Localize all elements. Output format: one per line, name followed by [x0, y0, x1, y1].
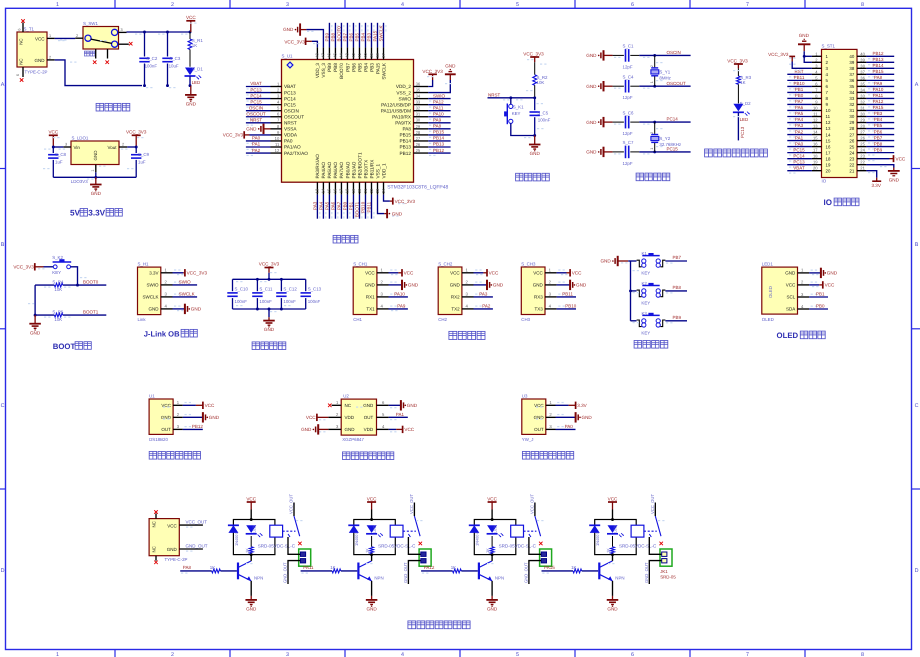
IO wire net PA0 — [787, 147, 812, 150]
IO net label PB13 — [872, 57, 884, 62]
svg-text:S_R2: S_R2 — [537, 75, 549, 80]
svg-text:OSCOUT: OSCOUT — [246, 111, 266, 116]
wire net PA7 (bottom) — [341, 195, 344, 219]
svg-text:LED: LED — [613, 525, 618, 533]
svg-text:RX2: RX2 — [451, 295, 460, 300]
IO pin number 34 — [849, 90, 854, 95]
capacitor S_C13 — [301, 279, 311, 309]
svg-text:1K: 1K — [571, 565, 576, 570]
pin 6 OSCOUT stub — [271, 112, 282, 117]
svg-text:24: 24 — [860, 148, 865, 153]
net label PB5 (rotated) — [355, 32, 360, 41]
svg-text:100nF: 100nF — [235, 299, 248, 304]
ground GND (LDO) — [90, 177, 102, 196]
LED S_D1 value label — [192, 80, 201, 85]
svg-text:VCC: VCC — [365, 270, 375, 275]
key K3 — [637, 313, 666, 327]
IO pin 37 stub — [857, 69, 866, 74]
svg-text:S_C9: S_C9 — [138, 152, 150, 157]
connector T2 TYPE-C-2P body — [149, 519, 179, 556]
IO net label PB14 — [872, 63, 884, 68]
terminal block pin2 (PA8) — [300, 559, 305, 563]
IO pin number 23 — [849, 156, 854, 161]
svg-text:PA4: PA4 — [795, 117, 804, 122]
terminal block pin2 (PA12) — [541, 559, 546, 563]
junction S_C12 bottom — [280, 308, 283, 311]
wire collector (PA15) — [612, 555, 614, 561]
svg-text:SWIO: SWIO — [179, 280, 191, 285]
IO wire net PB1 — [787, 92, 812, 95]
svg-text:GND: GND — [264, 327, 275, 332]
no-ERC marker on S_T1 top pin — [21, 19, 25, 23]
wire net BOOT1 (bottom) — [359, 195, 362, 219]
svg-text:8MHz: 8MHz — [659, 76, 670, 81]
svg-text:Link: Link — [138, 317, 147, 322]
LED S_D2 designator — [740, 101, 752, 106]
svg-text:VCC_3V3: VCC_3V3 — [727, 58, 748, 63]
svg-text:OSCIN: OSCIN — [667, 50, 681, 55]
svg-text:VCC: VCC — [404, 427, 414, 432]
capacitor S_C8 — [48, 147, 58, 177]
power port VCC_3V3 (IO pin 3) — [768, 52, 795, 61]
display LED1 designator — [762, 261, 774, 266]
terminal block pin1 (PA11) — [421, 552, 426, 556]
wire NO contact to terminal (PA15) — [649, 537, 661, 554]
svg-text:32: 32 — [860, 99, 865, 104]
svg-text:PB14: PB14 — [433, 136, 445, 141]
pin 15 PA5/AO stub (bottom) — [327, 182, 332, 194]
pin 3 stub (U3) — [546, 424, 564, 429]
wire relay loop (PA11) — [354, 520, 396, 555]
terminal block pin1 (PA8) — [300, 552, 305, 556]
pin 4 stub (OLED) — [798, 304, 818, 309]
pin name PB2/BOOT1 — [357, 152, 362, 178]
crystal S_Y1 — [651, 55, 659, 86]
diode 1N4007 (PA15) — [589, 525, 600, 533]
svg-text:PB3: PB3 — [369, 63, 374, 72]
net label PA8 — [183, 565, 192, 570]
pin 22 PB11/RX stub (bottom) — [369, 182, 374, 194]
power port VCC_3V3 (boot) — [13, 263, 43, 270]
svg-text:GND: GND — [35, 58, 46, 63]
svg-text:35: 35 — [849, 84, 854, 89]
svg-text:S_R4: S_R4 — [52, 279, 64, 284]
net label NRST — [250, 118, 263, 123]
connector S_ST1 value IO — [822, 179, 827, 184]
power port VCC_3V3 (reset) — [523, 51, 544, 62]
ground GND (H1 pin4) — [173, 304, 202, 314]
svg-text:SCL: SCL — [787, 295, 796, 300]
svg-text:13: 13 — [813, 124, 818, 129]
svg-text:PA11: PA11 — [433, 105, 444, 110]
relay part text (PA15) — [619, 543, 657, 548]
IO pin number 24 — [849, 150, 854, 155]
svg-text:RX1: RX1 — [366, 295, 375, 300]
svg-text:K1: K1 — [642, 251, 648, 256]
IO wire net PA4 — [787, 123, 812, 126]
connector S_CH3 value CH3 — [521, 317, 530, 322]
wire net NRST — [246, 123, 271, 126]
svg-text:12pF: 12pF — [623, 161, 633, 166]
pin 2 stub (H1) — [161, 280, 181, 285]
svg-text:VCC: VCC — [896, 156, 906, 161]
IO net label PA12 — [873, 99, 884, 104]
IO pin number 35 — [849, 84, 854, 89]
svg-text:1N4007: 1N4007 — [234, 532, 239, 546]
key K1 value KEY — [641, 271, 650, 276]
ground GND (relay PA15) — [607, 596, 619, 612]
key S_K1 contacts — [509, 104, 513, 123]
svg-text:Vout: Vout — [107, 145, 117, 150]
pin 23 VSS_1 stub (bottom) — [375, 182, 380, 194]
pin name OUT (U3) — [534, 427, 544, 432]
module U2 value XGZP6847 — [342, 437, 364, 442]
IO pin 24 stub — [857, 148, 866, 153]
svg-text:40: 40 — [363, 52, 368, 57]
svg-text:NC: NC — [151, 546, 156, 552]
net label PB10 (rotated) — [361, 201, 366, 213]
svg-text:1uF: 1uF — [55, 160, 63, 165]
pin T2 bottom stub — [155, 556, 157, 561]
svg-text:PA15: PA15 — [373, 30, 378, 41]
pin name PA15 — [375, 63, 380, 75]
svg-text:OUT: OUT — [161, 427, 171, 432]
svg-text:OSCOUT: OSCOUT — [284, 114, 304, 119]
svg-text:12: 12 — [275, 148, 280, 153]
wire emitter to gnd (PA12) — [491, 581, 493, 596]
IO pin 2 stub — [812, 57, 822, 62]
svg-text:20: 20 — [813, 166, 818, 171]
wire NRST — [488, 98, 535, 101]
IO net label PB11 — [794, 75, 805, 80]
key S_K2 value KEY — [52, 270, 61, 275]
pin 2 stub (S_CH2) — [462, 280, 482, 285]
IO pin 11 stub — [812, 112, 822, 117]
IO pin 1 stub — [812, 51, 822, 56]
wire PB11 (S_CH3) — [557, 296, 576, 298]
net label PA3 (rotated) — [313, 201, 318, 210]
pin 1 stub (S_CH3) — [545, 268, 565, 273]
module U1 value DS18B20 — [149, 437, 168, 442]
pin 46 PB9 stub (top) — [327, 47, 332, 59]
net label NRST — [488, 93, 501, 98]
pin 3 stub (S_CH1) — [377, 292, 397, 297]
pin 48 VDD_3 stub (top) — [315, 47, 320, 59]
resistor 1K base (PA15) — [573, 569, 582, 573]
IO pin number 19 — [826, 162, 831, 167]
resistor S_R1 labels — [192, 38, 204, 48]
svg-text:SWCLK: SWCLK — [379, 25, 384, 41]
caption serial circuit — [449, 331, 485, 339]
svg-text:GND: GND — [93, 150, 98, 161]
svg-text:GND: GND — [408, 283, 419, 288]
svg-text:S_C12: S_C12 — [283, 287, 297, 292]
svg-text:PC14: PC14 — [667, 117, 679, 122]
svg-text:S_C5: S_C5 — [537, 110, 549, 115]
svg-text:PB1: PB1 — [795, 87, 804, 92]
svg-text:VCC_3V3: VCC_3V3 — [126, 129, 147, 134]
svg-text:GND: GND — [407, 403, 418, 408]
svg-text:PA1: PA1 — [795, 135, 804, 140]
power port VCC (IO pin 23) — [866, 155, 905, 162]
module U3 value YW_J — [522, 437, 534, 442]
IO pin 23 stub — [857, 154, 866, 159]
junction at GND stem — [189, 84, 192, 87]
wire relay loop (PA12) — [474, 520, 516, 555]
IO pin number 37 — [849, 72, 854, 77]
LED relay (PA11) — [366, 525, 383, 537]
wire collector (PA8) — [250, 555, 252, 561]
svg-text:24: 24 — [381, 188, 386, 193]
pin name PA0 — [284, 139, 293, 144]
svg-text:VCC_3V3: VCC_3V3 — [395, 199, 416, 204]
pin name PC13 — [284, 90, 296, 95]
svg-text:VCC: VCC — [450, 270, 460, 275]
net label PA2 (S_CH2) — [482, 304, 491, 309]
svg-text:SWIO: SWIO — [433, 93, 445, 98]
wire emitter to gnd (PA8) — [250, 581, 252, 596]
svg-text:PB15: PB15 — [400, 133, 412, 138]
relay part text (PA12) — [499, 543, 537, 548]
svg-text:PC14: PC14 — [284, 96, 296, 101]
svg-text:SRD-05VDC-SL-C: SRD-05VDC-SL-C — [619, 543, 657, 548]
net label PA15 — [544, 565, 555, 570]
junction keys K2 — [629, 289, 632, 292]
svg-text:34: 34 — [849, 90, 854, 95]
pin name PA7/AO — [339, 162, 344, 179]
wire net PA10 — [428, 117, 450, 120]
svg-text:LDO3V3: LDO3V3 — [71, 179, 88, 184]
svg-text:PB1/AO: PB1/AO — [351, 161, 356, 178]
svg-text:5: 5 — [516, 652, 519, 657]
wire input PA12 — [421, 571, 453, 574]
svg-text:PA3: PA3 — [479, 292, 488, 297]
wire relay common VCC_OUT (PA15) — [654, 503, 656, 517]
wire filter top rail — [233, 278, 306, 280]
svg-text:PA7: PA7 — [337, 201, 342, 210]
IO pin 22 stub — [857, 160, 866, 165]
svg-text:12: 12 — [813, 118, 818, 123]
connector S_T1 value TYPE-C-2P — [25, 70, 48, 75]
wire net PB13 — [428, 147, 450, 150]
svg-text:S_U1: S_U1 — [282, 54, 294, 59]
resistor S_R5 — [54, 313, 62, 317]
wire net PB15 — [428, 135, 450, 138]
junction LDO gnd — [94, 176, 97, 179]
pin 1 stub (U3) — [546, 400, 564, 405]
wire net PC14 — [246, 99, 271, 102]
IC S_U1 part number — [387, 184, 448, 190]
power port VCC (S_CH1) — [389, 269, 414, 276]
IO net label PA5 — [795, 111, 804, 116]
wire net PB7 (top) — [347, 23, 350, 48]
svg-text:14: 14 — [826, 132, 831, 137]
svg-text:NPN: NPN — [254, 576, 263, 581]
svg-text:PA15: PA15 — [873, 105, 884, 110]
wire relay common VCC_OUT (PA11) — [413, 503, 415, 517]
svg-text:CH2: CH2 — [438, 317, 447, 322]
pin name GND (U1) — [161, 415, 172, 420]
power port VCC (S_CH3) — [557, 269, 582, 276]
switch pin 4 stub with no-connect X — [119, 42, 133, 46]
wire net PA9 — [428, 123, 450, 126]
IO pin 31 stub — [857, 105, 866, 110]
IO wire net PA9 — [866, 86, 894, 89]
pin name TX3 (S_CH3) — [535, 307, 544, 312]
net label PA11 — [303, 565, 314, 570]
pin name BOOT0 — [339, 63, 344, 79]
svg-text:NC: NC — [151, 521, 156, 527]
svg-text:VCC: VCC — [161, 403, 171, 408]
pin name RX1 (S_CH1) — [366, 295, 375, 300]
svg-text:PA11: PA11 — [873, 93, 884, 98]
power port GND (VSSA pin 8) — [246, 124, 270, 134]
pin name OUT right (U2) — [364, 415, 374, 420]
switch left contact — [85, 35, 91, 41]
power port VCC (relay PA12) — [487, 496, 497, 519]
svg-text:GND: GND — [450, 283, 461, 288]
no-connect X (U2 pin1) — [328, 404, 332, 408]
svg-text:TYPE-C-2P: TYPE-C-2P — [165, 557, 188, 562]
svg-text:GND: GND — [445, 64, 456, 69]
svg-text:D: D — [1, 568, 5, 574]
svg-text:GND: GND — [582, 415, 593, 420]
svg-text:PC13: PC13 — [740, 126, 745, 138]
net label PB0 (rotated) — [343, 201, 348, 210]
caption level module — [522, 452, 573, 460]
pin name GND (S_CH2) — [450, 283, 461, 288]
pin 8 VSSA stub — [271, 124, 282, 129]
LED relay (PA15) — [607, 525, 624, 537]
svg-text:GND: GND — [186, 102, 197, 107]
pin name PC15 — [284, 102, 296, 107]
svg-text:PB8: PB8 — [333, 63, 338, 72]
svg-text:VCC_3V3: VCC_3V3 — [523, 51, 544, 56]
svg-text:GND: GND — [534, 415, 545, 420]
net label PB8 (rotated) — [331, 32, 336, 41]
pin 27 PB14 stub — [414, 136, 429, 141]
svg-text:S_C6: S_C6 — [623, 110, 635, 115]
svg-text:PB3: PB3 — [367, 32, 372, 41]
resistor S_R5 labels — [52, 309, 64, 322]
wire filter GND stem — [268, 309, 270, 317]
IO wire net PA5 — [787, 117, 812, 120]
resistor S_R2 — [533, 62, 537, 98]
wire net PB5 (top) — [359, 23, 362, 48]
transistor NPN (PA11) — [358, 561, 371, 581]
svg-text:VDD: VDD — [345, 415, 355, 420]
resistor 1K base label (PA15) — [571, 565, 576, 570]
pin name GND (S_CH3) — [533, 283, 544, 288]
svg-text:STM32F103C8T6_LQFP48: STM32F103C8T6_LQFP48 — [387, 184, 448, 190]
pin 1 stub (S_CH2) — [462, 268, 482, 273]
resistor S_R4 — [54, 283, 62, 287]
svg-text:OSCOUT: OSCOUT — [667, 81, 687, 86]
IO pin number 11 — [826, 114, 831, 119]
module U3 designator — [522, 393, 528, 398]
IO wire net PA11 — [866, 98, 894, 101]
svg-text:B: B — [1, 242, 5, 248]
svg-text:33: 33 — [860, 93, 865, 98]
pin name PB9 — [327, 63, 332, 72]
net label PA10 — [433, 111, 444, 116]
IO pin number 14 — [826, 132, 831, 137]
svg-text:PB10/TX: PB10/TX — [363, 159, 368, 179]
IO pin number 13 — [826, 126, 831, 131]
connector S_T1 TYPE-C-2P body — [17, 32, 47, 67]
connector S_CH3 body — [521, 267, 545, 315]
power port VCC (U1) — [183, 402, 215, 409]
pin 20 PB2/BOOT1 stub (bottom) — [357, 182, 362, 194]
wire net PA1 — [246, 147, 271, 150]
resistor 1K vert (PA12) — [490, 536, 494, 555]
net label PA2 — [252, 148, 261, 153]
svg-text:1: 1 — [650, 81, 654, 83]
svg-text:VCC: VCC — [186, 15, 196, 20]
ground GND (U2 pin6) — [389, 400, 418, 410]
wire OUT PA1 (U2) — [389, 416, 408, 418]
svg-text:PB11: PB11 — [562, 292, 573, 297]
svg-text:31: 31 — [416, 112, 421, 117]
pin 34 SWIO stub — [414, 94, 429, 99]
svg-text:2: 2 — [76, 34, 78, 38]
svg-text:36: 36 — [416, 81, 421, 86]
IO pin 12 stub — [812, 118, 822, 123]
regulator S_LDO1 body — [71, 141, 119, 165]
pin 18 PB0/AO stub (bottom) — [345, 182, 350, 194]
junction loop bottom (PA15) — [611, 553, 614, 556]
wire net OSCIN — [246, 111, 271, 114]
svg-text:VSS_1: VSS_1 — [375, 164, 380, 179]
wire net PA0 — [246, 141, 271, 144]
svg-text:27: 27 — [860, 130, 865, 135]
svg-text:1K: 1K — [192, 43, 197, 48]
caption key circuit — [634, 341, 668, 349]
svg-text:NPN: NPN — [495, 576, 504, 581]
pin S_T1.GND stub — [47, 55, 55, 60]
junction at C8 top — [52, 146, 55, 149]
resistor S_R2 labels — [537, 75, 549, 85]
svg-text:35: 35 — [860, 81, 865, 86]
svg-text:S_CH3: S_CH3 — [521, 261, 536, 266]
resistor 1K base (PA8) — [212, 569, 221, 573]
svg-text:KEY: KEY — [512, 111, 521, 116]
resistor 1K base (PA11) — [332, 569, 341, 573]
svg-text:LED: LED — [192, 80, 201, 85]
pin name PA12/USB/DP — [381, 102, 411, 107]
wire net SWCLK (top) — [384, 23, 387, 48]
svg-text:PA3: PA3 — [795, 123, 804, 128]
svg-text:2: 2 — [650, 65, 654, 67]
svg-text:VCC_3V3: VCC_3V3 — [259, 262, 280, 267]
pin LDO Vout stub — [119, 142, 127, 147]
pin name SWCLK (H1) — [142, 295, 158, 300]
junction at C3 bottom — [166, 84, 169, 87]
svg-text:2: 2 — [49, 55, 51, 59]
transistor NPN label (PA15) — [615, 576, 624, 581]
svg-text:1K: 1K — [740, 80, 745, 85]
pin name VCC (S_CH1) — [365, 270, 375, 275]
wire net PB11 (bottom) — [371, 195, 374, 219]
net label PA8 — [433, 124, 442, 129]
svg-text:33: 33 — [416, 100, 421, 105]
svg-text:18: 18 — [345, 188, 350, 193]
svg-text:GND: GND — [191, 307, 202, 312]
svg-text:PB6: PB6 — [351, 63, 356, 72]
net label PA7 (rotated) — [337, 201, 342, 210]
terminal block body (PA15) — [660, 549, 672, 566]
wire VDDA — [250, 134, 271, 136]
